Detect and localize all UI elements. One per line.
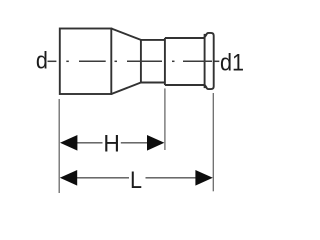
- small tube top edge: [141, 39, 165, 41]
- svg-text:H: H: [103, 130, 119, 157]
- svg-text:d1: d1: [220, 49, 244, 76]
- small tube left vertical: [140, 40, 142, 83]
- fitting body: cone bottom edge: [111, 83, 141, 95]
- press bead inner vertical: [204, 34, 206, 88]
- press sleeve top edge: [165, 37, 204, 39]
- arrow H left: [60, 135, 77, 151]
- dimension line H: [77, 142, 103, 144]
- svg-text:L: L: [130, 166, 142, 193]
- extension line L right: [212, 93, 214, 191]
- arrow H right: [147, 135, 164, 151]
- small tube bottom edge: [141, 82, 165, 84]
- dimension line L: [77, 177, 129, 179]
- arrow L left: [60, 170, 77, 186]
- arrow L right: [195, 170, 212, 186]
- press sleeve bottom edge: [165, 84, 204, 86]
- extension line H right: [164, 88, 166, 150]
- press bead outline: [204, 33, 214, 89]
- svg-text:d: d: [36, 46, 48, 73]
- centerline: [48, 60, 220, 62]
- press sleeve mouth vertical: [164, 38, 166, 85]
- fitting body: cone top edge: [111, 29, 141, 40]
- fitting body: large cylinder outline: [60, 29, 112, 95]
- extension line left: [58, 99, 60, 193]
